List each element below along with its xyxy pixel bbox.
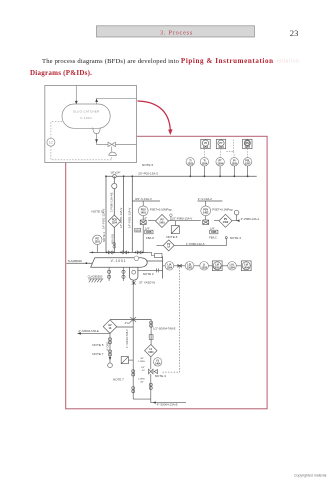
BFD inlet wire [75, 86, 77, 103]
spectacle blind NOTE 8 [166, 221, 179, 239]
gauge glass stems [108, 267, 126, 281]
svg-text:FB/LO: FB/LO [146, 236, 155, 240]
svg-text:NOTE 4: NOTE 4 [155, 374, 166, 378]
svg-text:14"-P051-13A-V: 14"-P051-13A-V [119, 208, 123, 228]
svg-text:2"-V-13A-2: 2"-V-13A-2 [198, 197, 212, 201]
svg-text:LC: LC [49, 141, 54, 145]
P&ID border frame [66, 136, 267, 409]
svg-text:NOTE 2: NOTE 2 [143, 272, 154, 276]
svg-text:1204: 1204 [202, 163, 208, 166]
svg-text:V-1001: V-1001 [111, 259, 127, 263]
pressure gauge PG-1204 [112, 183, 117, 188]
svg-text:3. Process: 3. Process [160, 29, 193, 36]
vessel V-1001 (BFD) [62, 104, 110, 128]
spec break circles left column [109, 338, 112, 356]
wire diamond to valve [150, 357, 152, 369]
instrument bubble TI-1204 [186, 158, 194, 177]
svg-text:1204: 1204 [218, 146, 224, 149]
wire blowdown to vent [157, 239, 227, 246]
red develop arrow [138, 101, 171, 131]
svg-text:PCB: PCB [112, 220, 117, 222]
svg-text:NOTE 6: NOTE 6 [142, 163, 153, 167]
drain valve circles above manifold [113, 243, 116, 249]
bottom outlet label 4"-S0004-13A-E [153, 401, 178, 406]
relief valve PSV-1402 [201, 201, 211, 216]
wire valve down [150, 374, 152, 399]
size labels near LV [138, 358, 145, 384]
signal wire level to LV [162, 267, 180, 372]
wire inlet manifold [89, 251, 148, 253]
drain arrowhead down [109, 357, 112, 360]
control valve LV-1404 [149, 369, 158, 374]
svg-text:ST. YASDYN: ST. YASDYN [139, 280, 155, 284]
BFD liquid outlet wire [97, 134, 109, 145]
BFD vessel boot [93, 128, 101, 134]
level bubble LIA-1304 [165, 262, 174, 271]
wire main gas header [106, 175, 257, 177]
svg-text:2"-S0004-TA8-E: 2"-S0004-TA8-E [79, 329, 99, 333]
svg-text:PV: PV [167, 244, 171, 246]
svg-text:1/4": 1/4" [210, 226, 215, 230]
wire diamond drop [109, 333, 111, 363]
svg-text:1207: 1207 [245, 146, 251, 149]
standpipe [162, 257, 164, 279]
svg-text:LV: LV [149, 349, 152, 351]
wire PSV outlet header [148, 220, 237, 222]
relief valve PSV-1401 [138, 201, 148, 216]
svg-text:NOTE 7: NOTE 7 [113, 378, 124, 382]
interlock diamond PV-1401 [156, 215, 169, 228]
wire level bridle [163, 265, 242, 267]
BFD frame [45, 86, 137, 163]
header junction dots [105, 175, 248, 177]
svg-text:Diagrams (P&IDs).: Diagrams (P&IDs). [30, 69, 92, 77]
level gauge bubble LG [93, 235, 102, 252]
wire vertical line 3 [131, 176, 133, 252]
level bubble LI-1303 [200, 262, 209, 271]
svg-text:4"-ORD: 4"-ORD [105, 342, 109, 351]
root valve on bridle [178, 264, 182, 267]
wire vertical main to vessel [105, 176, 107, 252]
interlock diamond PV-1402 [219, 214, 232, 227]
svg-text:entation.: entation. [277, 58, 301, 65]
svg-text:NOTE 7: NOTE 7 [92, 352, 103, 356]
drain box DRN right [210, 226, 218, 234]
svg-text:1401: 1401 [159, 221, 165, 224]
svg-text:1402: 1402 [203, 212, 209, 215]
svg-text:23: 23 [290, 28, 299, 38]
svg-text:3/4"-V-13A-V: 3/4"-V-13A-V [135, 197, 152, 201]
BFD signal wire lower [51, 146, 112, 160]
svg-text:1207: 1207 [245, 163, 251, 166]
manifold valve 3 [137, 251, 141, 254]
level bubble LSL-1303 [185, 262, 194, 271]
svg-text:1-DRN: 1-DRN [138, 361, 145, 363]
flanged valve under PSV-1401 [140, 216, 146, 253]
vessel boot [130, 256, 139, 280]
svg-text:1/2"-S0004-TA8-E: 1/2"-S0004-TA8-E [153, 326, 176, 330]
spec break circles mid [149, 335, 153, 340]
reducer symbol [113, 175, 116, 178]
svg-text:PSET=0.1MPag: PSET=0.1MPag [212, 207, 233, 211]
svg-text:4"x2": 4"x2" [125, 321, 131, 325]
svg-text:NOTE 8: NOTE 8 [166, 235, 177, 239]
spectacle blind lower [121, 357, 133, 364]
wire boot drain drop [132, 286, 134, 316]
level bubble LAL-1304 [228, 262, 237, 271]
svg-text:1"-S0004-TA8-V: 1"-S0004-TA8-V [125, 329, 129, 348]
svg-text:DRB: DRB [146, 231, 152, 234]
vent header label 3/4"-V-13A-V [132, 197, 160, 201]
wire left drain branch [132, 319, 134, 399]
svg-text:1304: 1304 [167, 266, 173, 269]
wire diamond link [116, 326, 133, 328]
drain terminal circle [108, 363, 113, 368]
svg-text:1A: 1A [109, 327, 112, 330]
signal wire DCS links [204, 140, 247, 158]
svg-text:PSET=0.10MPag: PSET=0.10MPag [150, 207, 172, 211]
level box LIA-1404 [241, 261, 251, 271]
vent tip [225, 237, 227, 239]
vent bubble to flare [234, 210, 239, 220]
instrument bubble PI-1205 [230, 158, 238, 177]
instrument bubble PSL-1207 [243, 158, 251, 177]
BFD gas outlet wire [97, 98, 137, 104]
svg-text:UY: UY [204, 142, 208, 145]
drain stub with circles [132, 383, 153, 393]
header bar [97, 26, 255, 37]
svg-text:The process diagrams (BFDs) ar: The process diagrams (BFDs) are develope… [42, 57, 274, 65]
svg-text:SLUG CATCHER: SLUG CATCHER [73, 109, 100, 113]
wire vessel to standpipe upper [146, 260, 162, 262]
vent header label 2"-V-13A-2 [198, 197, 223, 201]
instrument bubble PT-1204 [216, 158, 224, 177]
BFD level valve LV [108, 142, 116, 146]
valve stack on left branch [132, 370, 135, 376]
drain box DRN left [145, 226, 153, 234]
svg-text:NOTE 1: NOTE 1 [102, 231, 106, 242]
BFD level controller LC [47, 138, 55, 146]
svg-text:TLA286900: TLA286900 [67, 259, 82, 263]
DCS box UY-1204 [201, 139, 210, 149]
svg-text:1A: 1A [167, 246, 170, 249]
svg-text:MBV: MBV [135, 229, 141, 232]
svg-text:CLA285500: CLA285500 [88, 274, 103, 278]
svg-text:1204: 1204 [217, 163, 223, 166]
svg-text:1402: 1402 [223, 221, 229, 224]
level diamond LV-1404 [145, 344, 157, 356]
vessel V-1001 [91, 258, 148, 268]
svg-text:2": 2" [145, 216, 147, 220]
outlet arrow 2"-P080-13A-2 [237, 217, 260, 222]
svg-text:NOTE 9: NOTE 9 [92, 209, 103, 213]
BFD signal wire upper [51, 122, 62, 139]
svg-text:PS: PS [246, 142, 250, 145]
manifold junction dots [92, 252, 144, 254]
svg-text:1/2"-P080-13A-V: 1/2"-P080-13A-V [171, 217, 192, 221]
svg-text:FB/LC: FB/LC [209, 236, 217, 240]
vent stub circle [170, 214, 173, 221]
wire vessel to standpipe lower [138, 268, 163, 272]
wire strainer to LV branch [110, 320, 151, 345]
feed line TLA286900 [67, 259, 93, 264]
svg-text:1-DRB: 1-DRB [138, 379, 145, 381]
grade hatch CLA285500 [88, 274, 104, 282]
svg-text:V-1001: V-1001 [80, 116, 92, 120]
svg-text:1/4": 1/4" [141, 367, 145, 369]
svg-text:HV: HV [108, 325, 112, 327]
size label 1/4" left [135, 228, 141, 232]
svg-text:1/4": 1/4" [145, 226, 150, 230]
BFD valve actuator [111, 147, 113, 152]
svg-text:1303-2: 1303-2 [213, 266, 221, 269]
flanged valve under PSV-1402 [203, 216, 209, 225]
svg-text:14"-P051-13A-V: 14"-P051-13A-V [128, 208, 132, 228]
wire vertical PSV line 1 [113, 176, 115, 252]
DCS box PS-1207 [243, 139, 252, 149]
svg-text:20"-P02-13A-5: 20"-P02-13A-5 [138, 172, 158, 176]
svg-text:1"-P080-13A-5: 1"-P080-13A-5 [186, 242, 205, 246]
svg-text:1204: 1204 [203, 146, 209, 149]
svg-text:NOTE 5: NOTE 5 [92, 343, 103, 347]
svg-text:1401: 1401 [140, 212, 146, 215]
blowdown diamond SDV [103, 320, 117, 334]
svg-text:1-P080-13A-AE: 1-P080-13A-AE [110, 192, 114, 212]
wire bottom collect [133, 399, 186, 403]
svg-text:3/4": 3/4" [140, 382, 144, 384]
manifold valve 1 [108, 251, 112, 254]
svg-text:1404: 1404 [148, 351, 154, 354]
svg-text:Copyrighted material: Copyrighted material [294, 474, 327, 478]
svg-text:1203: 1203 [188, 163, 194, 166]
svg-text:1205: 1205 [232, 163, 238, 166]
svg-text:PY: PY [219, 142, 223, 145]
strainer symbol [130, 316, 136, 322]
svg-text:NOTE 3: NOTE 3 [230, 236, 241, 240]
svg-text:1404: 1404 [243, 266, 249, 269]
instrument bubble TI-1203 [200, 158, 208, 177]
manifold end box [155, 253, 163, 257]
svg-text:FC: FC [142, 370, 145, 372]
svg-text:1303: 1303 [187, 266, 193, 269]
svg-text:4"-S0004-13A-E: 4"-S0004-13A-E [157, 403, 178, 407]
outlet arrow 2"-S0004-TA8-E [78, 329, 111, 335]
svg-text:DRB: DRB [211, 231, 217, 234]
svg-text:1303: 1303 [201, 266, 207, 269]
blowdown diamond BDV [163, 240, 174, 251]
svg-text:1404: 1404 [155, 363, 161, 366]
interlock diamond PSHH-1204 [108, 215, 120, 227]
wire vertical line 2 [123, 176, 125, 252]
svg-text:1304: 1304 [229, 266, 235, 269]
svg-text:16"x24": 16"x24" [110, 171, 120, 175]
manifold valve 2 [123, 251, 127, 254]
DCS box PY-1204 [216, 139, 225, 149]
positioner bubble LV-1404 [154, 358, 162, 366]
spec break circles upper [150, 321, 153, 327]
level box LIA-1303-2 [212, 261, 222, 271]
svg-text:2"-P080-13A-2: 2"-P080-13A-2 [241, 217, 260, 221]
boot drain valve [132, 280, 136, 286]
svg-text:1204: 1204 [112, 222, 118, 225]
svg-text:1201: 1201 [95, 241, 101, 244]
svg-text:3/4": 3/4" [140, 358, 144, 360]
